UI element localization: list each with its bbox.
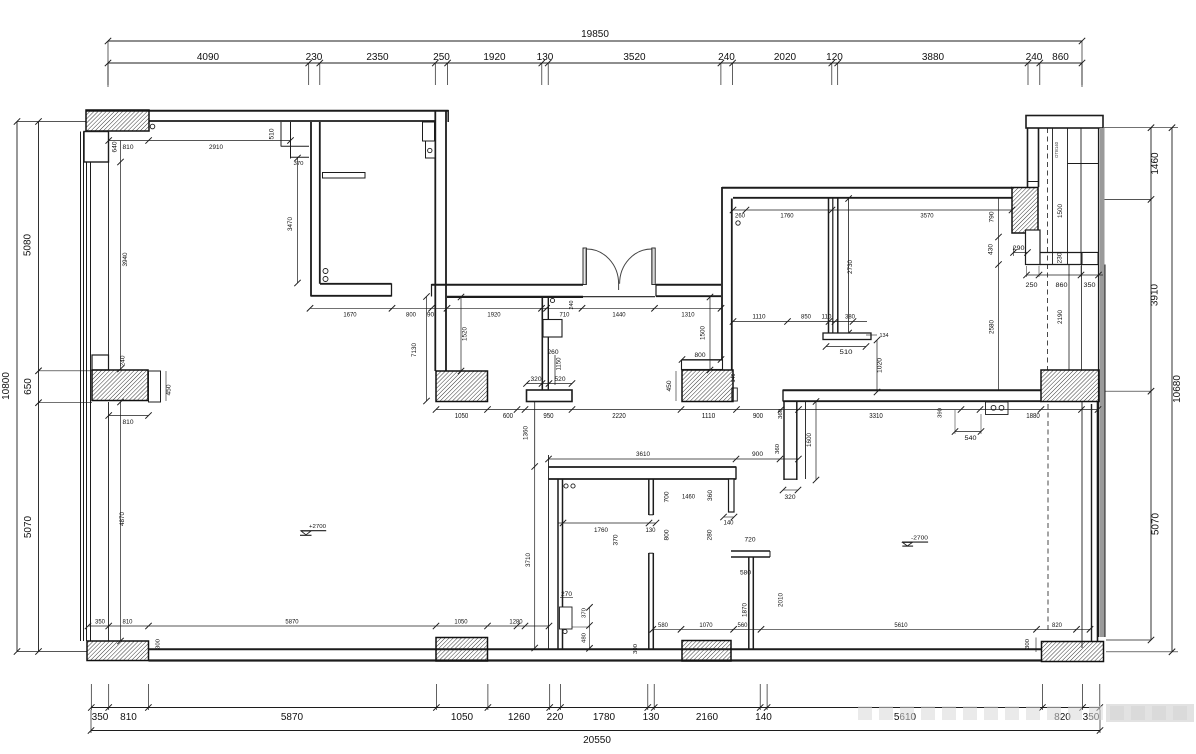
svg-text:2220: 2220 [612,413,626,420]
dim 2730 line [845,195,851,336]
svg-text:240: 240 [1026,52,1043,63]
column C1 top-left [86,110,149,131]
svg-text:1440: 1440 [612,312,626,319]
svg-text:260: 260 [548,350,560,356]
svg-text:20550: 20550 [583,735,611,746]
dim 300 vertical bottom right [1025,638,1036,653]
svg-text:110: 110 [822,314,832,321]
svg-text:2580: 2580 [989,320,996,334]
svg-text:2160: 2160 [696,712,719,723]
wall stub below [784,402,806,481]
svg-text:1150: 1150 [557,357,563,371]
wall right-room left x721 [722,187,732,370]
svg-text:860: 860 [1056,282,1068,289]
svg-text:1110: 1110 [702,413,716,420]
bay left wall [1028,128,1039,187]
svg-text:1280: 1280 [509,619,523,626]
svg-text:1500: 1500 [700,326,707,340]
svg-text:810: 810 [120,712,137,723]
svg-text:140: 140 [755,712,772,723]
bay right wall [1099,128,1106,637]
box on wall x434 lower [426,141,436,158]
dim 790/430 vertical [988,199,1002,392]
dimension bottom segments [88,684,1103,723]
dim 1500 vertical [700,294,714,373]
svg-text:10800: 10800 [1,372,12,400]
circle bath bottom [563,629,567,633]
T foot box [527,390,573,402]
dimension top total 19850 [105,29,1085,87]
svg-text:1870: 1870 [742,603,749,617]
svg-text:140: 140 [724,521,735,527]
svg-text:1920: 1920 [483,52,506,63]
svg-text:2190: 2190 [1057,310,1064,324]
dim 810 below C6 [106,412,152,426]
wall hall top right of door [656,284,721,297]
svg-text:800: 800 [665,529,671,541]
wall top exterior [86,110,449,122]
box below bay left wall [1026,230,1041,265]
svg-text:1760: 1760 [780,213,794,220]
svg-text:130: 130 [537,52,554,63]
svg-text:5870: 5870 [285,619,299,626]
dim 4870 vertical [117,399,126,644]
dim 2910 row [106,128,294,153]
box with circle pair [986,402,1009,415]
svg-text:350: 350 [92,712,109,723]
svg-text:450: 450 [167,384,173,396]
wall right-room bottom [783,390,1041,402]
svg-text:560: 560 [738,622,748,629]
svg-text:3610: 3610 [636,451,650,458]
dimension left outer chain 10800 [1,118,87,654]
svg-text:5610: 5610 [894,622,908,629]
column C2 right-room [1012,188,1038,234]
svg-text:240: 240 [121,355,127,367]
svg-text:1670: 1670 [343,312,357,319]
wall bath top [549,467,737,480]
svg-text:800: 800 [695,352,706,359]
svg-text:580: 580 [740,571,752,577]
wall right exterior south [1082,402,1098,648]
svg-text:230: 230 [306,52,323,63]
column C8 bottom [436,638,488,662]
dimension top segments [105,52,1085,85]
svg-text:3470: 3470 [287,217,294,231]
svg-text:130: 130 [643,712,660,723]
svg-text:1920: 1920 [487,312,501,319]
dashed line right room [1047,404,1049,630]
svg-text:250: 250 [433,52,450,63]
svg-text:360: 360 [775,444,781,454]
shower bar vertical [749,557,754,649]
svg-text:300: 300 [156,639,162,649]
dimension bottom total 20550 [88,710,1103,746]
dim 270 bracket [560,592,573,598]
svg-text:390: 390 [938,408,944,418]
svg-text:510: 510 [840,349,853,356]
wall hall top left of door [432,284,584,297]
svg-text:3880: 3880 [922,52,945,63]
svg-text:1020: 1020 [877,358,884,373]
svg-text:2020: 2020 [774,52,797,63]
svg-text:790: 790 [989,211,996,222]
shelf in closet [323,173,366,179]
svg-text:7130: 7130 [411,343,418,357]
svg-text:380: 380 [845,314,855,321]
wall closet vertical x310 [311,122,320,297]
svg-text:5080: 5080 [23,233,34,256]
svg-text:134: 134 [880,333,889,339]
svg-text:1050: 1050 [454,619,468,626]
svg-text:3520: 3520 [623,52,646,63]
svg-text:350: 350 [95,619,105,626]
wall bath left thin [548,455,550,650]
dimension row y629 right [650,622,1094,633]
svg-text:600: 600 [503,413,513,420]
svg-text:510: 510 [270,128,276,140]
svg-text:810: 810 [123,144,134,151]
dim 140 bracket [720,514,737,527]
wall vertical x434 [435,110,446,371]
svg-text:580: 580 [658,622,668,629]
door arc right [620,249,652,284]
dimension row y626 left [85,619,552,630]
svg-text:19850: 19850 [581,29,609,40]
svg-text:1880: 1880 [1026,413,1040,420]
svg-text:4870: 4870 [119,512,126,526]
svg-text:1050: 1050 [451,712,474,723]
dim 1520 vertical [458,294,469,374]
svg-text:280: 280 [708,529,714,541]
circle right room [736,221,740,225]
svg-text:130: 130 [646,528,657,534]
door leaf right [652,248,655,285]
svg-text:1460: 1460 [682,494,695,501]
svg-text:+2700: +2700 [309,524,326,530]
svg-text:1310: 1310 [681,312,695,319]
svg-text:360: 360 [708,489,714,501]
svg-text:370: 370 [614,534,620,546]
svg-text:480: 480 [582,633,588,643]
wall T vertical [542,297,548,390]
svg-text:640: 640 [113,141,119,153]
svg-text:2730: 2730 [847,260,854,274]
dim 3470 vertical [287,155,301,286]
dim 800 bracket [679,352,724,363]
wall left exterior window lines [81,132,109,642]
dimension row y409 [433,406,1101,420]
grey line on T wall [554,355,556,385]
door leaf left [583,248,586,285]
dim 1600 vertical stub [806,398,819,483]
wall step lines near x281 [281,122,309,159]
box right of C6 [149,371,161,402]
circles closet [323,269,328,274]
wall segment small box left mid [92,355,109,370]
svg-text:3570: 3570 [920,213,934,220]
svg-text:3910: 3910 [1150,283,1161,306]
svg-text:370: 370 [294,161,304,167]
svg-text:1360: 1360 [523,426,530,440]
svg-text:900: 900 [753,413,763,420]
svg-text:850: 850 [801,314,811,321]
dim 2190 vertical [1057,265,1082,371]
svg-text:270: 270 [561,592,573,598]
svg-text:120: 120 [826,52,843,63]
shower bar horizontal [731,551,770,557]
svg-text:2350: 2350 [366,52,389,63]
dim 1020 vertical [874,337,884,395]
svg-text:260: 260 [735,213,745,220]
svg-text:650: 650 [23,378,34,395]
svg-text:1500: 1500 [1057,204,1064,218]
watermark grey [858,704,1194,722]
bay mullion lines [1053,128,1099,265]
wall closet bottom [311,283,392,296]
svg-text:1760: 1760 [594,527,608,534]
dimension row y308 [307,305,724,318]
column C9 bottom [682,641,731,662]
bay top cap [1026,116,1103,129]
svg-text:1050: 1050 [455,413,469,420]
svg-text:1520: 1520 [462,327,469,341]
circle marker near C1 [150,124,155,129]
svg-text:3940: 3940 [122,252,129,266]
dimension row y321 [730,314,867,325]
level mark left +2700 [300,524,326,536]
svg-text:1260: 1260 [508,712,531,723]
svg-text:230: 230 [1058,252,1064,264]
level mark right -2700 [902,535,928,546]
door arc left [587,249,619,290]
column C7 bottom-left [87,641,149,661]
svg-text:540: 540 [965,435,977,442]
wall right-room top [722,188,1012,198]
wall segment box below C1 [84,132,109,163]
svg-text:450: 450 [667,380,673,392]
dim 540 bracket [952,410,984,442]
column C6 left middle [92,370,148,401]
small box bath [560,607,573,629]
wall bath left [558,479,563,650]
dim 7130 vertical [411,293,430,404]
svg-text:710: 710 [560,312,570,319]
box right of C4 [732,388,738,401]
box on T wall [543,320,562,338]
wall bath partition lower [649,553,654,649]
dashed line bay [1047,128,1049,370]
dim 290 bracket [1010,245,1030,256]
svg-text:1780: 1780 [593,712,616,723]
dim 450 right C6 [166,371,173,401]
svg-text:5070: 5070 [23,515,34,538]
dim 450 left C4 [667,371,676,401]
svg-text:OTB140: OTB140 [1054,142,1059,158]
svg-text:3710: 3710 [525,553,532,567]
column C5 [436,371,488,402]
svg-text:720: 720 [745,538,757,544]
column C10 bottom-right [1042,642,1104,662]
extension below T foot [534,402,536,467]
svg-text:300: 300 [633,644,639,654]
dim bay 250/860/350 [1023,266,1103,289]
svg-text:810: 810 [123,419,134,426]
svg-text:810: 810 [123,619,133,626]
bay bottom band [1039,253,1099,265]
dim 320/520 row [523,377,575,387]
dimension left inner chain 5080/650/5070 [23,118,93,654]
dimension row y210 [730,207,1015,220]
svg-text:250: 250 [1026,282,1038,289]
dim 1760/130 row [558,520,660,534]
svg-text:520: 520 [555,377,567,383]
svg-text:5870: 5870 [281,712,304,723]
dim bath top row [545,451,801,462]
svg-text:320: 320 [785,495,797,501]
dim 134 tick [866,333,889,339]
svg-text:820: 820 [1052,622,1062,629]
svg-text:1070: 1070 [699,622,713,629]
circles bath top [564,484,568,488]
svg-text:290: 290 [1013,245,1025,252]
svg-text:90: 90 [427,312,435,319]
svg-text:800: 800 [406,312,416,319]
svg-text:300: 300 [1025,639,1031,649]
svg-text:2010: 2010 [778,593,785,607]
circle below hall wall [550,298,554,302]
dim vertical bath box [572,604,593,651]
svg-text:1460: 1460 [1150,152,1161,175]
white box atop C4 [682,360,723,370]
svg-text:350: 350 [1084,282,1096,289]
svg-text:320: 320 [531,377,543,383]
svg-text:5070: 5070 [1151,512,1162,535]
dimension right inner chain 1460/3910/5070 [1100,125,1162,644]
svg-text:860: 860 [1052,52,1069,63]
wall stub bath right [729,479,735,512]
svg-text:1600: 1600 [806,433,813,447]
dim 510 under foot [823,343,869,356]
svg-text:900: 900 [752,451,763,458]
svg-text:700: 700 [665,491,671,503]
svg-text:1110: 1110 [752,314,766,321]
column C3 [1041,370,1099,402]
svg-text:360: 360 [778,409,784,419]
svg-text:240: 240 [718,52,735,63]
door threshold line [583,296,655,298]
wall bottom exterior [149,649,1042,660]
dim 320 below stub [780,487,801,501]
svg-text:10680: 10680 [1172,375,1183,403]
svg-text:2910: 2910 [209,144,223,151]
dim 3710 vertical [525,463,538,651]
kitchen partition foot [823,333,871,340]
wall bath partition upper [649,479,654,515]
box on wall x434 upper [423,122,435,141]
svg-text:-2700: -2700 [911,535,928,541]
column C4 [682,370,733,402]
dimension right outer chain 10680 [1104,125,1183,656]
svg-text:430: 430 [988,244,995,255]
circle pair [991,405,996,410]
circle in box x434 [428,148,432,152]
svg-text:3310: 3310 [869,413,883,420]
svg-text:4090: 4090 [197,52,220,63]
svg-text:950: 950 [543,413,553,420]
svg-text:220: 220 [547,712,564,723]
wall kitchen partition [829,199,838,334]
dim 3940 vertical [117,141,129,373]
